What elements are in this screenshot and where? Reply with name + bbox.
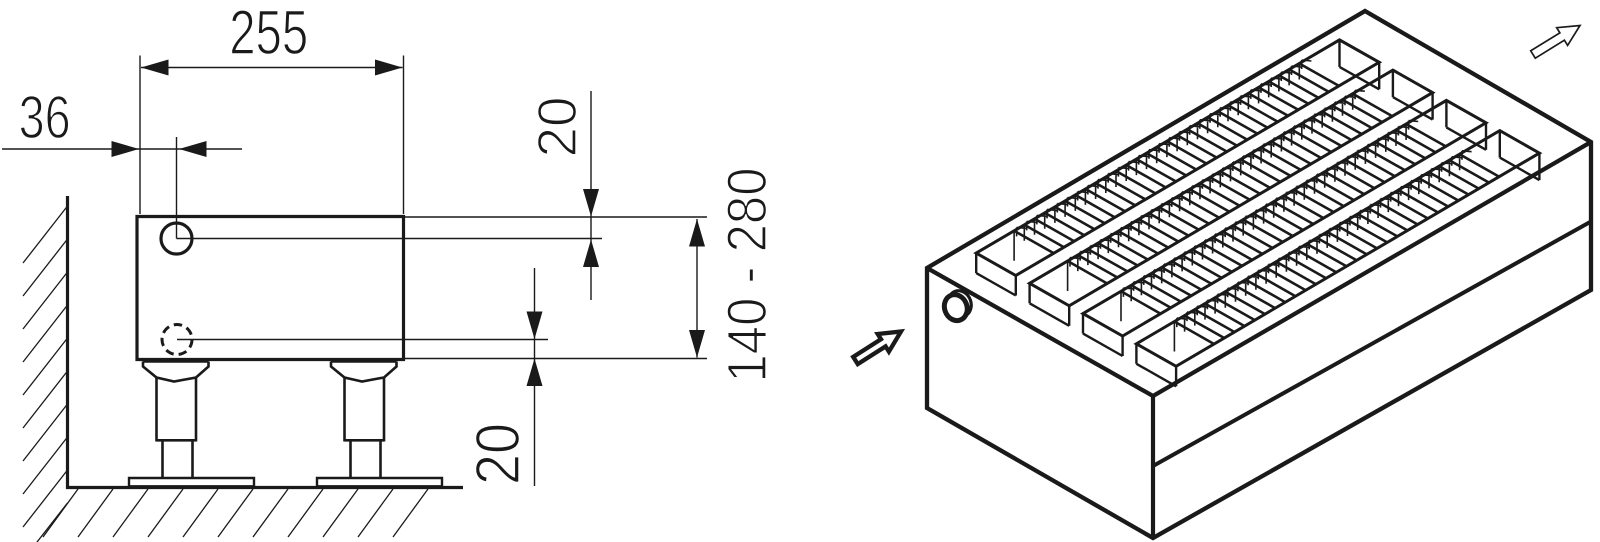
supply pipe axis vertical line xyxy=(176,137,178,239)
leg bracket xyxy=(143,360,209,363)
leg lower tube xyxy=(161,442,164,479)
grille channel 3 near end wall xyxy=(1082,314,1084,334)
grille channel 2 near end wall xyxy=(1028,283,1030,303)
svg-text:36: 36 xyxy=(19,84,71,151)
grille channel 1 near end wall xyxy=(975,253,977,273)
floor hatching xyxy=(43,489,428,537)
supply pipe connection xyxy=(161,223,192,254)
pipe connection stub xyxy=(945,287,975,319)
dimension 20 (top): arrows xyxy=(590,91,592,300)
leg foot plate xyxy=(129,478,254,486)
grille channel 4 near end wall xyxy=(1135,344,1137,364)
grille channel 1 fins xyxy=(1014,64,1339,254)
grille channel 2 fins xyxy=(1068,94,1393,284)
top face front-left edge xyxy=(927,268,1153,396)
return pipe connection (dashed) xyxy=(162,325,192,355)
return pipe axis leader line xyxy=(177,339,548,341)
svg-text:20: 20 xyxy=(464,423,533,485)
leg foot plate xyxy=(317,478,442,486)
top edge extension line xyxy=(404,216,707,218)
grille channel 2 outline xyxy=(1030,70,1433,306)
dimension 20 (bottom): arrows xyxy=(534,268,536,486)
radiator body (side view) xyxy=(137,217,404,360)
top face front-right edge xyxy=(1153,142,1591,396)
grille channel 4 outline xyxy=(1136,131,1539,367)
svg-text:140 - 280: 140 - 280 xyxy=(716,168,778,383)
dimension 36: left arrow xyxy=(2,148,242,150)
leg bracket xyxy=(331,360,397,363)
svg-text:255: 255 xyxy=(229,0,308,68)
dimension 140-280: arrows xyxy=(696,219,698,358)
front corner vertical edge xyxy=(1151,396,1155,538)
dimension 255: dimension line xyxy=(141,67,403,69)
grille channel 3 fins xyxy=(1121,124,1446,314)
bottom edge extension line xyxy=(404,358,707,360)
grille channel 1 outline xyxy=(976,40,1379,276)
grille channel 1 far end wall xyxy=(1338,40,1340,67)
floor line xyxy=(66,486,463,489)
grille channel 2 far end wall xyxy=(1392,70,1394,97)
grille channel 4 fins xyxy=(1174,154,1499,344)
grille channel 3 outline xyxy=(1083,100,1486,336)
flow direction arrow (outlet, top right) xyxy=(1531,26,1580,59)
flow direction arrow (inlet, left) xyxy=(853,332,901,365)
leg shaft xyxy=(343,378,346,442)
front panel seam line xyxy=(1153,222,1591,467)
wall hatching xyxy=(23,206,68,542)
svg-text:20: 20 xyxy=(526,97,588,158)
dimension 36: right arrow xyxy=(179,141,207,157)
grille channel 4 far end wall xyxy=(1499,131,1501,158)
leg shaft xyxy=(155,378,158,442)
supply pipe axis leader line xyxy=(177,238,603,240)
wall line xyxy=(66,196,69,489)
grille channel 3 far end wall xyxy=(1445,100,1447,127)
radiator casing outline (isometric) xyxy=(927,11,1591,538)
leg lower tube xyxy=(349,442,352,479)
dimension 255: extension lines xyxy=(139,56,141,215)
